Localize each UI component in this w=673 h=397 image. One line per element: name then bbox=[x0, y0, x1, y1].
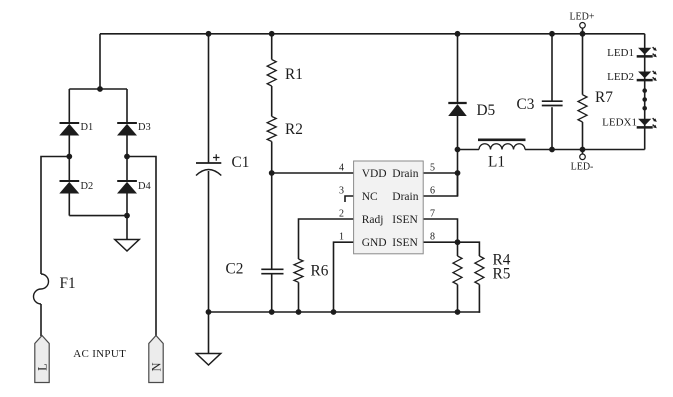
svg-text:R5: R5 bbox=[493, 266, 511, 283]
node dots (LED chain continuation) bbox=[642, 88, 647, 93]
node top rail / R1 bbox=[269, 31, 275, 37]
node bridge bottom bbox=[124, 213, 130, 219]
wire C3 bottom bbox=[551, 107, 553, 149]
svg-text:Drain: Drain bbox=[392, 168, 418, 180]
wire C1 top bbox=[208, 34, 210, 163]
svg-text:L: L bbox=[35, 363, 49, 371]
node bridge right mid bbox=[124, 154, 130, 160]
svg-text:D2: D2 bbox=[81, 181, 94, 192]
wire drain node to L1 bbox=[458, 149, 480, 151]
svg-text:R7: R7 bbox=[595, 89, 613, 106]
svg-text:3: 3 bbox=[339, 186, 344, 197]
resistor R5 bbox=[475, 256, 484, 285]
svg-text:LED2: LED2 bbox=[607, 71, 634, 83]
node VDD junction bbox=[269, 170, 275, 176]
wire C3 top bbox=[551, 34, 553, 101]
node drain pin5 junction bbox=[455, 170, 461, 176]
svg-text:5: 5 bbox=[430, 163, 435, 174]
wire left branch middle bbox=[68, 136, 70, 182]
node rail / C1 bottom bbox=[206, 309, 212, 315]
wire left drop to bridge bbox=[99, 34, 101, 89]
resistor R4 bbox=[453, 256, 462, 285]
wire bridge to ground bbox=[126, 216, 128, 240]
wire pin3 NC stub bbox=[345, 196, 354, 202]
fuse F1 bbox=[34, 274, 49, 304]
svg-text:AC INPUT: AC INPUT bbox=[73, 348, 126, 360]
svg-text:R1: R1 bbox=[285, 66, 303, 83]
svg-text:LED-: LED- bbox=[571, 162, 594, 173]
node top rail / C1 bbox=[206, 31, 212, 37]
svg-text:L1: L1 bbox=[488, 154, 505, 171]
wire L line to fuse bbox=[41, 157, 69, 275]
terminal LED+ bbox=[580, 23, 586, 29]
wire pin4 VDD bbox=[272, 172, 354, 174]
svg-text:VDD: VDD bbox=[362, 168, 387, 180]
svg-text:D1: D1 bbox=[81, 122, 94, 133]
LED LED1 bbox=[607, 47, 657, 59]
wire pin2 Radj bbox=[299, 219, 354, 259]
node bridge left mid bbox=[66, 154, 72, 160]
capacitor C2 bbox=[226, 261, 284, 278]
resistor R6 bbox=[294, 259, 303, 282]
terminal L bbox=[35, 336, 49, 383]
wire VDD node to C2 bbox=[271, 173, 273, 269]
svg-text:7: 7 bbox=[430, 209, 435, 220]
node top rail / LED+ bbox=[580, 31, 586, 37]
wire right branch upper bbox=[126, 89, 128, 123]
svg-text:GND: GND bbox=[362, 237, 387, 249]
svg-text:C3: C3 bbox=[517, 96, 535, 113]
wire R6 bottom bbox=[298, 282, 300, 312]
svg-text:Radj: Radj bbox=[362, 214, 384, 226]
inductor L1 bbox=[478, 140, 526, 171]
node bridge top bbox=[97, 86, 103, 92]
wire L1 to LED string bbox=[525, 149, 645, 151]
svg-text:D4: D4 bbox=[138, 181, 152, 192]
node LED- wire / C3 bbox=[549, 147, 555, 153]
node top rail / D5 bbox=[455, 31, 461, 37]
wire R5 bottom bbox=[478, 285, 480, 313]
ground main bbox=[196, 354, 220, 366]
node LED- wire / R7 bbox=[580, 147, 586, 153]
wire R7 top bbox=[582, 34, 584, 95]
wire left branch upper bbox=[68, 89, 70, 123]
diode D5 bbox=[448, 102, 495, 119]
wire R4 top bbox=[457, 242, 459, 256]
ground bridge bbox=[115, 240, 139, 252]
wire pin7 ISEN bbox=[423, 219, 457, 242]
resistor R1 bbox=[267, 60, 276, 87]
diode D3 bbox=[117, 122, 151, 135]
svg-text:1: 1 bbox=[339, 232, 344, 243]
wire LED+ stub bbox=[582, 28, 584, 34]
svg-text:D3: D3 bbox=[138, 122, 151, 133]
svg-text:6: 6 bbox=[430, 186, 435, 197]
capacitor C3 bbox=[517, 96, 563, 113]
wire R1-R2 bbox=[271, 86, 273, 116]
wire R1 top bbox=[271, 34, 273, 60]
wire pin5 Drain bbox=[423, 172, 457, 174]
resistor R7 bbox=[578, 95, 587, 122]
wire LED- stub bbox=[582, 150, 584, 154]
node rail / R6 bbox=[296, 309, 302, 315]
terminal N bbox=[149, 336, 163, 383]
wire top rail bbox=[100, 33, 645, 35]
op-amp U1 (driver IC body) bbox=[354, 161, 424, 254]
wire D5 bottom to drain node bbox=[457, 116, 459, 196]
node rail / GND pin bbox=[331, 309, 337, 315]
node top rail / C3 bbox=[549, 31, 555, 37]
svg-text:D5: D5 bbox=[477, 102, 496, 119]
LED LEDX1 bbox=[602, 117, 657, 129]
capacitor C1 bbox=[196, 154, 249, 176]
wire N line bbox=[127, 157, 156, 337]
wire pin1 GND bbox=[334, 242, 354, 312]
svg-text:R2: R2 bbox=[285, 121, 303, 138]
wire bottom ground rail bbox=[209, 311, 481, 313]
svg-text:LEDX1: LEDX1 bbox=[602, 117, 637, 129]
svg-text:8: 8 bbox=[430, 232, 435, 243]
svg-text:LED+: LED+ bbox=[569, 12, 594, 23]
wire C1 bottom bbox=[208, 171, 210, 312]
diode D1 bbox=[59, 122, 93, 135]
LED LED2 bbox=[607, 71, 657, 83]
wire R4 bottom bbox=[457, 285, 459, 313]
wire ISEN node to R5 bbox=[458, 242, 480, 256]
wire LED string vertical bbox=[644, 34, 646, 150]
svg-text:ISEN: ISEN bbox=[392, 214, 418, 226]
svg-text:4: 4 bbox=[339, 163, 344, 174]
diode D4 bbox=[117, 181, 152, 194]
svg-text:2: 2 bbox=[339, 209, 344, 220]
terminal LED- bbox=[580, 154, 586, 160]
wire bridge bottom horizontal bbox=[69, 215, 127, 217]
wire rail to ground symbol bbox=[208, 312, 210, 354]
wire R7 bottom bbox=[582, 122, 584, 150]
svg-text:F1: F1 bbox=[60, 275, 76, 292]
svg-text:C1: C1 bbox=[232, 154, 250, 171]
wire pin6 Drain bbox=[423, 173, 457, 196]
wire R2 to VDD node bbox=[271, 142, 273, 174]
wire fuse to L terminal bbox=[40, 304, 42, 336]
wire pin8 ISEN bbox=[423, 241, 457, 243]
svg-text:R6: R6 bbox=[311, 263, 329, 280]
svg-text:C2: C2 bbox=[226, 261, 244, 278]
wire bridge top horizontal bbox=[69, 88, 127, 90]
diode D2 bbox=[59, 181, 93, 194]
resistor R2 bbox=[267, 116, 276, 141]
wire C2 to rail bbox=[271, 274, 273, 312]
svg-text:N: N bbox=[149, 362, 163, 371]
node rail / R4 bbox=[455, 309, 461, 315]
node ISEN pin8 junction bbox=[455, 239, 461, 245]
wire right branch middle bbox=[126, 136, 128, 182]
wire left branch lower bbox=[68, 194, 70, 216]
wire D5 top bbox=[457, 34, 459, 103]
svg-text:ISEN: ISEN bbox=[392, 237, 418, 249]
wire right branch lower bbox=[126, 194, 128, 216]
svg-text:NC: NC bbox=[362, 191, 378, 203]
svg-text:Drain: Drain bbox=[392, 191, 418, 203]
node drain / L1 junction bbox=[455, 147, 461, 153]
svg-text:LED1: LED1 bbox=[607, 47, 634, 59]
node rail / C2 bbox=[269, 309, 275, 315]
